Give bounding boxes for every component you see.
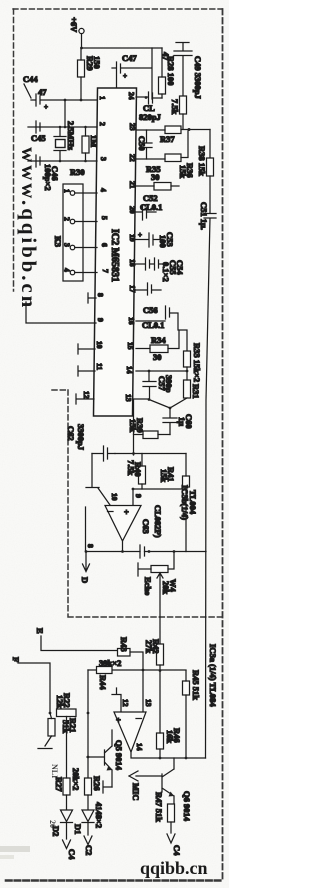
svg-text:20: 20 bbox=[128, 206, 137, 214]
resistor R45 51k bbox=[183, 670, 202, 758]
svg-text:12k: 12k bbox=[55, 695, 65, 709]
svg-text:C57: C57 bbox=[157, 376, 167, 391]
ground pin11 bbox=[78, 366, 95, 376]
wire opamp2 output bbox=[131, 752, 206, 758]
node R30 bottom bbox=[84, 160, 87, 163]
svg-text:3300pJ: 3300pJ bbox=[76, 424, 86, 451]
svg-text:R38 15k: R38 15k bbox=[197, 146, 207, 176]
capacitor C51 1u bbox=[199, 202, 216, 758]
capacitor C46 100p x2 bbox=[36, 155, 60, 191]
node output apex bbox=[121, 550, 124, 553]
svg-text:19: 19 bbox=[128, 234, 137, 242]
svg-text:R33 15k×2: R33 15k×2 bbox=[192, 343, 202, 382]
resistor R33 15k x2 bbox=[184, 343, 203, 382]
terminal +6V bbox=[69, 17, 84, 48]
svg-text:CL082P): CL082P) bbox=[153, 505, 163, 538]
wire stray segment bbox=[85, 507, 87, 551]
svg-text:24: 24 bbox=[127, 92, 136, 100]
capacitor C50 bbox=[137, 130, 152, 159]
svg-text:D1: D1 bbox=[73, 824, 83, 834]
svg-text:20k: 20k bbox=[161, 581, 171, 595]
capacitor C57 390p bbox=[143, 371, 174, 399]
svg-text:C4: C4 bbox=[67, 849, 77, 860]
svg-text:C56: C56 bbox=[143, 305, 158, 315]
wire pin9 bbox=[26, 302, 96, 323]
svg-text:R34: R34 bbox=[151, 335, 166, 345]
op-amp IC3a bbox=[114, 644, 218, 752]
svg-text:CL0.1: CL0.1 bbox=[142, 320, 164, 330]
resistor R32 7.5k bbox=[170, 96, 187, 129]
transistor Q5 9014 bbox=[87, 730, 124, 787]
svg-text:F: F bbox=[11, 657, 21, 662]
svg-text:10: 10 bbox=[110, 493, 119, 501]
resistor R29 150 bbox=[78, 48, 103, 100]
svg-text:14: 14 bbox=[135, 743, 144, 751]
resistor R39 15k bbox=[128, 418, 170, 439]
capacitor C60 1u bbox=[163, 408, 194, 435]
wire C44 node down to pin2 net bbox=[64, 100, 66, 127]
svg-text:MIC: MIC bbox=[131, 783, 141, 800]
svg-text:100p×2: 100p×2 bbox=[43, 164, 53, 191]
wire pin13 net bbox=[133, 399, 170, 455]
svg-text:NLI: NLI bbox=[50, 764, 59, 778]
ground pin12 opamp bbox=[112, 688, 121, 712]
wire +6V rail bbox=[82, 47, 163, 49]
resistor R21 51k bbox=[38, 713, 78, 749]
resistor R34 30 bbox=[136, 330, 187, 362]
node C44 junction bbox=[64, 99, 67, 102]
svg-text:C62: C62 bbox=[66, 426, 76, 441]
svg-text:R27: R27 bbox=[54, 777, 64, 792]
svg-text:4: 4 bbox=[99, 188, 108, 192]
svg-text:12: 12 bbox=[121, 699, 130, 707]
resistor R41 15k bbox=[159, 454, 190, 552]
svg-text:0.1×2: 0.1×2 bbox=[161, 262, 171, 282]
svg-text:C47: C47 bbox=[122, 53, 137, 63]
svg-text:+: + bbox=[138, 231, 142, 239]
ground pin12 bbox=[76, 394, 94, 404]
terminal C4 output arrow bbox=[167, 834, 182, 856]
svg-text:13: 13 bbox=[124, 394, 133, 402]
node R43 R44 bbox=[142, 669, 145, 672]
scan artifacts (decorative) bbox=[0, 764, 59, 859]
svg-text:11: 11 bbox=[95, 363, 104, 370]
svg-text:C51 1μ.: C51 1μ. bbox=[199, 202, 209, 230]
wire pin9 net bbox=[133, 489, 186, 505]
svg-text:15: 15 bbox=[126, 342, 135, 350]
capacitor C63 bbox=[140, 545, 145, 558]
node R42 bottom bbox=[159, 669, 162, 672]
transistor Q6 9014 bbox=[162, 758, 192, 822]
svg-text:C44: C44 bbox=[23, 74, 38, 84]
svg-text:C4: C4 bbox=[172, 845, 182, 856]
svg-text:+: + bbox=[116, 715, 121, 725]
terminal C4 left arrow bbox=[63, 840, 78, 860]
svg-text:9: 9 bbox=[96, 318, 105, 322]
svg-text:E: E bbox=[35, 628, 45, 634]
svg-text:4: 4 bbox=[63, 268, 72, 272]
node R46 output bbox=[159, 757, 162, 760]
node R31 bottom bbox=[169, 407, 172, 410]
node pin9 bbox=[132, 488, 135, 491]
svg-text:C50: C50 bbox=[137, 136, 147, 151]
svg-text:150: 150 bbox=[92, 56, 102, 69]
svg-text:Q5 9014: Q5 9014 bbox=[114, 740, 124, 771]
capacitor C45 bbox=[31, 121, 46, 143]
svg-text:+: + bbox=[44, 103, 48, 111]
op-amp IC3b bbox=[86, 485, 198, 548]
svg-text:12: 12 bbox=[82, 391, 91, 399]
svg-text:1M: 1M bbox=[89, 135, 99, 147]
svg-text:20: 20 bbox=[48, 820, 57, 828]
capacitor C52 CL0.1 bbox=[136, 193, 162, 220]
node R30 top bbox=[84, 126, 87, 129]
svg-text:27k: 27k bbox=[144, 640, 154, 654]
capacitor C54 C55 0.1x2 bbox=[136, 258, 185, 282]
resistor R28 100 bbox=[159, 48, 177, 98]
svg-text:6: 6 bbox=[100, 243, 109, 247]
node C62 junction bbox=[132, 452, 135, 455]
svg-text:7.5k: 7.5k bbox=[126, 460, 136, 476]
wire pin14 net bbox=[136, 370, 187, 372]
svg-text:15k: 15k bbox=[159, 469, 169, 483]
svg-text:7.5k: 7.5k bbox=[170, 99, 180, 115]
svg-text:2: 2 bbox=[63, 217, 72, 221]
capacitor C49 3300pJ bbox=[174, 43, 203, 100]
pin numbers left side bbox=[82, 96, 110, 399]
svg-text:4148×2: 4148×2 bbox=[94, 802, 104, 828]
capacitor CL 820pJ bbox=[139, 92, 161, 122]
svg-text:R37: R37 bbox=[160, 134, 175, 144]
svg-text:IC3a (1/4) TL084: IC3a (1/4) TL084 bbox=[208, 644, 218, 707]
switch K3 bbox=[53, 184, 83, 281]
wire to R38 bbox=[209, 130, 211, 159]
resistor R30 1M bbox=[70, 127, 99, 177]
wire pin3 net bbox=[28, 160, 97, 162]
wire pin13 opamp bbox=[142, 670, 144, 712]
node R21 R22 bbox=[49, 712, 52, 715]
wire K3 to pin5 bbox=[75, 221, 97, 223]
node crystal bottom bbox=[59, 160, 62, 163]
diode D2 4148 bbox=[51, 795, 73, 839]
resistor R22 12k bbox=[55, 693, 76, 717]
node supply junction bbox=[80, 47, 83, 50]
wire pin2 net bbox=[28, 126, 97, 128]
svg-text:30: 30 bbox=[151, 172, 160, 182]
node crystal top bbox=[59, 126, 62, 129]
node pin24 junction bbox=[145, 96, 148, 99]
svg-text:R45 51k: R45 51k bbox=[191, 670, 201, 700]
svg-text:R31: R31 bbox=[191, 384, 201, 399]
svg-text:30: 30 bbox=[153, 352, 162, 362]
svg-text:qqibb.cn: qqibb.cn bbox=[140, 858, 208, 878]
node Q5 base bbox=[87, 756, 90, 759]
node C63 right bbox=[148, 550, 151, 553]
svg-text:C63: C63 bbox=[141, 519, 151, 534]
wire pin13 node across bbox=[115, 453, 186, 455]
svg-text:C49 3300pJ: C49 3300pJ bbox=[193, 56, 203, 99]
svg-text:+: + bbox=[123, 72, 127, 80]
svg-text:1μ: 1μ bbox=[177, 417, 187, 426]
svg-text:2.5MHz: 2.5MHz bbox=[66, 121, 76, 150]
svg-text:www.qqibb.cn: www.qqibb.cn bbox=[17, 147, 41, 310]
svg-text:Echo: Echo bbox=[143, 577, 153, 595]
node pin13 C57 bbox=[148, 398, 151, 401]
wire input net bbox=[88, 669, 186, 671]
resistor R43 39k bbox=[118, 637, 144, 670]
resistor R35 30 bbox=[136, 164, 179, 190]
capacitor C62 3300pJ bbox=[66, 424, 115, 461]
capacitor C53 100 bbox=[136, 231, 175, 248]
svg-text:16: 16 bbox=[127, 317, 136, 325]
terminal C2 arrow bbox=[84, 836, 94, 855]
svg-text:15k: 15k bbox=[128, 419, 138, 433]
pin numbers right side bbox=[124, 92, 137, 402]
node R37 junction bbox=[188, 128, 191, 131]
svg-text:14: 14 bbox=[125, 366, 134, 374]
wire pin24 net bbox=[136, 97, 162, 98]
svg-text:18: 18 bbox=[128, 259, 137, 267]
svg-text:R28 100: R28 100 bbox=[166, 56, 176, 86]
svg-text:TL004: TL004 bbox=[188, 490, 198, 515]
wire K3 to pin7 bbox=[75, 272, 97, 274]
svg-text:1: 1 bbox=[63, 189, 72, 193]
node R45 output bbox=[185, 757, 188, 760]
ground C62 to pin10 bbox=[86, 454, 110, 506]
svg-text:R47 51k: R47 51k bbox=[154, 792, 164, 822]
terminal MIC arrow bbox=[129, 771, 162, 800]
svg-text:16k: 16k bbox=[165, 730, 175, 744]
svg-text:820pJ: 820pJ bbox=[139, 112, 161, 122]
wire C44 node to pin1 rail bbox=[65, 99, 97, 101]
ground pin10 bbox=[78, 344, 95, 354]
svg-text:R43: R43 bbox=[119, 637, 129, 652]
resistor R42 27k bbox=[144, 639, 164, 671]
svg-text:IC2 M65831: IC2 M65831 bbox=[109, 229, 120, 282]
node pin1 junction bbox=[80, 99, 83, 102]
svg-text:K3: K3 bbox=[53, 236, 63, 247]
svg-text:R44: R44 bbox=[98, 675, 108, 690]
svg-text:3: 3 bbox=[99, 157, 108, 161]
svg-text:8: 8 bbox=[86, 544, 95, 548]
resistor R40 7.5k bbox=[126, 454, 146, 490]
svg-text:C2: C2 bbox=[84, 845, 94, 855]
resistor R27 bbox=[54, 717, 81, 796]
svg-text:15k: 15k bbox=[178, 165, 188, 179]
ground Q5 emitter bbox=[103, 781, 112, 793]
svg-text:CL0.1: CL0.1 bbox=[140, 202, 162, 212]
svg-text:1: 1 bbox=[98, 96, 107, 100]
resistor R26 bbox=[85, 776, 103, 795]
wire mic rail bbox=[87, 670, 89, 778]
svg-text:R26: R26 bbox=[92, 776, 102, 791]
wire opamp output bbox=[86, 541, 206, 552]
wire K3 to pin6 bbox=[75, 247, 97, 249]
diode D1 4148 bbox=[73, 795, 94, 835]
wire K3 to pin4 bbox=[75, 192, 97, 194]
capacitor C44 47 bbox=[23, 74, 65, 111]
svg-text:13: 13 bbox=[144, 699, 153, 707]
resistor R47 51k bbox=[154, 792, 175, 833]
node C57 top bbox=[148, 370, 151, 373]
svg-text:7: 7 bbox=[101, 269, 110, 273]
svg-text:22: 22 bbox=[128, 154, 137, 162]
IC op IC2 M65831 bbox=[94, 88, 137, 416]
svg-text:2: 2 bbox=[98, 122, 107, 126]
svg-text:17: 17 bbox=[128, 285, 137, 293]
svg-text:R30: R30 bbox=[70, 167, 85, 177]
resistor R38 15k bbox=[197, 146, 214, 213]
svg-text:20k×2: 20k×2 bbox=[71, 768, 81, 790]
svg-text:C45: C45 bbox=[31, 133, 46, 143]
resistor R36 15k bbox=[136, 131, 195, 179]
terminal F bbox=[11, 657, 50, 713]
page dashed border frame bbox=[6, 9, 223, 881]
svg-text:8: 8 bbox=[96, 293, 105, 297]
terminal D arrow bbox=[80, 552, 90, 584]
svg-text:+: + bbox=[124, 507, 129, 517]
capacitor pin17 bbox=[136, 283, 161, 295]
node R22 right bbox=[87, 712, 90, 715]
node W4 right bbox=[173, 550, 176, 553]
svg-text:10: 10 bbox=[95, 341, 104, 349]
capacitor C56 CL0.1 bbox=[136, 305, 178, 330]
svg-text:5: 5 bbox=[100, 216, 109, 220]
terminal E bbox=[35, 628, 117, 651]
svg-text:9: 9 bbox=[134, 494, 143, 498]
svg-text:21: 21 bbox=[128, 181, 137, 189]
ground pin8 bbox=[88, 293, 96, 303]
node C44 drop bbox=[64, 126, 67, 129]
resistor R37 bbox=[136, 126, 210, 144]
resistor R44 39k bbox=[97, 667, 113, 691]
svg-text:100: 100 bbox=[158, 235, 168, 248]
resistor R31 bbox=[170, 371, 201, 408]
node R33 bottom bbox=[186, 370, 189, 373]
svg-text:+6V: +6V bbox=[69, 17, 79, 33]
svg-text:D: D bbox=[80, 577, 90, 583]
resistor R46 16k bbox=[157, 671, 183, 759]
crystal B 2.5MHz bbox=[54, 121, 76, 161]
capacitor C47 47 bbox=[112, 48, 171, 99]
node output D bbox=[85, 550, 88, 553]
potentiometer W4 20k Echo bbox=[138, 552, 178, 645]
svg-text:Q6 9014: Q6 9014 bbox=[182, 791, 192, 822]
